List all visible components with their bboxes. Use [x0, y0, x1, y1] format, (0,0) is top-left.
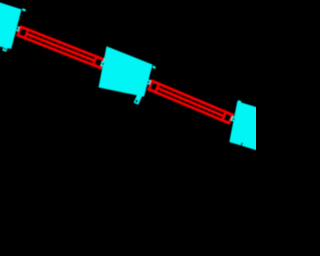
pin pad P1a on right edge of U1 (wire1 start) [16, 26, 22, 32]
right inner bar [221, 110, 228, 122]
pin pad P2b on right edge of U2 (wire2 start) [146, 79, 152, 85]
left inner bar [23, 28, 29, 40]
right end bar [227, 113, 234, 125]
pin pad P1b on bottom edge of U1 [2, 46, 7, 52]
pin pad P3a on left edge of U3 (wire2 end) [231, 116, 237, 122]
bottom rail [16, 33, 102, 69]
corner wedge / notch piece of U2 near top-right corner [152, 66, 155, 70]
wire W2 (red 3-rail bus from U2 to U3) [147, 79, 234, 124]
chip U2 (middle) [99, 46, 153, 97]
wire W1 (red 3-rail bus from U1 to U2) [16, 25, 105, 69]
pin pad P2c on bottom edge of U2 [134, 94, 143, 105]
middle rail [157, 87, 224, 117]
left end bar [147, 79, 154, 91]
left end bar [16, 25, 22, 37]
right end bar [99, 58, 105, 70]
pin pad P2a on left edge of U2 (wire1 end) [100, 61, 106, 67]
chip U3 (bottom-right, partially off-screen) [229, 101, 258, 151]
middle rail [26, 33, 95, 62]
corner wedge / notch piece of U3 near top-left corner [238, 100, 242, 103]
notch slit in bottom edge of U3 [240, 142, 243, 146]
right inner bar [92, 55, 98, 67]
top rail [151, 79, 234, 116]
corner wedge / notch piece of U1 near top-right corner [22, 8, 26, 11]
left inner bar [154, 82, 161, 94]
chip U1 (top-left, partially off-screen) [0, 2, 22, 49]
top rail [19, 25, 105, 61]
bottom rail [147, 88, 230, 125]
